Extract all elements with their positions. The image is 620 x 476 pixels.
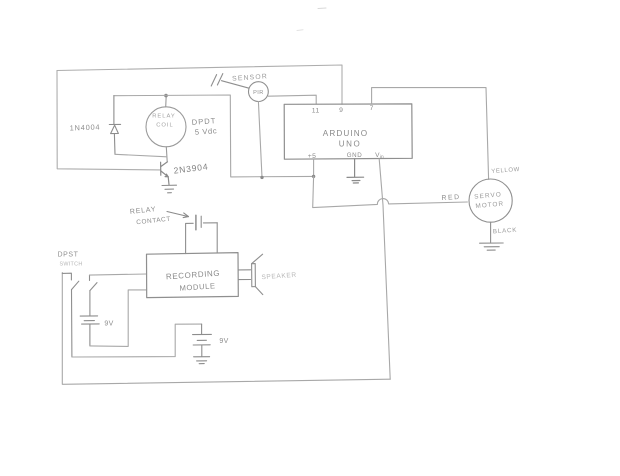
- svg-text:BLACK: BLACK: [493, 227, 518, 236]
- wire: Arduino Vin down to bottom rail: [379, 159, 390, 379]
- pin +5: [308, 153, 317, 160]
- node: +5 junction dot: [312, 175, 315, 178]
- svg-text:SWITCH: SWITCH: [59, 262, 82, 268]
- ground: under servo: [480, 243, 504, 250]
- wire: pole1 to battery BT2 plus: [72, 324, 202, 357]
- wire: Arduino +5 lead: [313, 159, 315, 177]
- label: RECORDING MODULE: [166, 269, 221, 293]
- pin Vin: [375, 152, 384, 160]
- svg-text:RED: RED: [441, 194, 460, 202]
- label: SENSOR: [232, 73, 268, 82]
- value label 9V (BT1): [104, 321, 113, 328]
- op-amp U1 Arduino UNO box: [284, 104, 412, 159]
- label: YELLOW wire: [491, 167, 520, 175]
- label: RELAY COIL: [152, 114, 176, 129]
- svg-text:UNO: UNO: [339, 140, 362, 149]
- pin 7: [370, 105, 374, 112]
- label: BLACK wire: [493, 227, 518, 236]
- stray pencil smudge: [297, 29, 303, 32]
- svg-text:RECORDING: RECORDING: [166, 269, 221, 282]
- relay contact K1.A: [186, 215, 218, 253]
- svg-text:COIL: COIL: [156, 123, 174, 129]
- ground: under battery BT2: [194, 357, 210, 364]
- battery BT1 9V: [80, 316, 99, 346]
- svg-text:SERVO: SERVO: [474, 191, 502, 200]
- wire: pole2 terminal to module left: [90, 274, 147, 275]
- label: ARDUINO UNO: [323, 129, 368, 149]
- label: RELAY CONTACT with arrow: [130, 206, 172, 226]
- svg-text:1N4004: 1N4004: [70, 122, 101, 132]
- wire: Arduino pin 7 to servo yellow: [372, 88, 489, 180]
- pin 11: [312, 108, 320, 115]
- pin 9: [339, 107, 343, 114]
- svg-text:DPDT: DPDT: [191, 116, 216, 127]
- label: SPEAKER: [261, 272, 297, 281]
- node: relay top junction dot: [164, 94, 168, 98]
- svg-text:GND: GND: [347, 152, 363, 159]
- svg-text:MODULE: MODULE: [179, 281, 216, 292]
- svg-text:SENSOR: SENSOR: [232, 73, 268, 82]
- value label 2N3904: [173, 161, 209, 175]
- stray pencil mark top: [318, 7, 326, 10]
- svg-text:11: 11: [312, 108, 320, 115]
- ground: Arduino GND: [347, 159, 364, 183]
- battery BT2 9V: [193, 324, 212, 356]
- wire: diode bottom to relay bottom: [115, 154, 167, 157]
- label: SERVO MOTOR: [474, 191, 504, 210]
- svg-text:YELLOW: YELLOW: [491, 167, 520, 175]
- svg-text:PIR: PIR: [253, 90, 264, 96]
- svg-text:+5: +5: [308, 153, 317, 160]
- svg-text:5 Vdc: 5 Vdc: [195, 126, 218, 137]
- wire: PIR bottom to +5 rail: [258, 102, 262, 178]
- wire: PIR output to Arduino pin 11: [268, 95, 316, 104]
- label: RED wire: [441, 194, 460, 202]
- node: PIR bottom junction dot: [260, 176, 263, 179]
- ground: under transistor Q1 emitter: [162, 185, 177, 193]
- svg-text:CONTACT: CONTACT: [136, 216, 171, 227]
- value label 1N4004: [70, 122, 101, 132]
- wire: bottom rail to DPST: [62, 273, 390, 385]
- speaker LS1: [239, 254, 263, 294]
- svg-text:2N3904: 2N3904: [173, 161, 209, 175]
- wire: relay/diode top rail to +5 drop: [114, 95, 314, 177]
- switch S1 DPST pole 2: [90, 275, 98, 316]
- svg-text:9V: 9V: [104, 321, 113, 328]
- label: DPST switch: [57, 252, 82, 268]
- wire: battery BT1 minus to module left: [90, 290, 147, 347]
- recording module M1 box: [147, 253, 239, 298]
- svg-text:RELAY: RELAY: [130, 206, 157, 216]
- arrow: relay contact pointer: [167, 212, 189, 218]
- motor M2 servo: [469, 179, 512, 243]
- svg-text:RELAY: RELAY: [152, 114, 176, 120]
- wire: +5 to servo RED with hop: [313, 176, 468, 207]
- wire: pin 9 top rail (left rail to Arduino pin 9): [57, 65, 342, 104]
- svg-text:MOTOR: MOTOR: [475, 201, 504, 210]
- svg-text:SPEAKER: SPEAKER: [261, 272, 297, 281]
- pin GND: [347, 152, 363, 159]
- svg-text:ARDUINO: ARDUINO: [323, 129, 368, 138]
- wire: left rail down to transistor base: [57, 71, 160, 170]
- value label 9V (BT2): [219, 338, 228, 345]
- svg-text:DPST: DPST: [57, 252, 78, 259]
- svg-text:9: 9: [339, 107, 343, 114]
- relay coil K1: [146, 96, 186, 162]
- label: PIR: [253, 90, 264, 96]
- sensor U2 PIR: [211, 74, 268, 102]
- svg-text:7: 7: [370, 105, 374, 112]
- transistor Q1 2N3904: [161, 162, 169, 185]
- value label DPDT 5 Vdc: [191, 116, 217, 137]
- switch S1 DPST pole 1: [62, 273, 79, 357]
- svg-text:9V: 9V: [219, 338, 228, 345]
- diode D1 1N4004: [109, 96, 120, 155]
